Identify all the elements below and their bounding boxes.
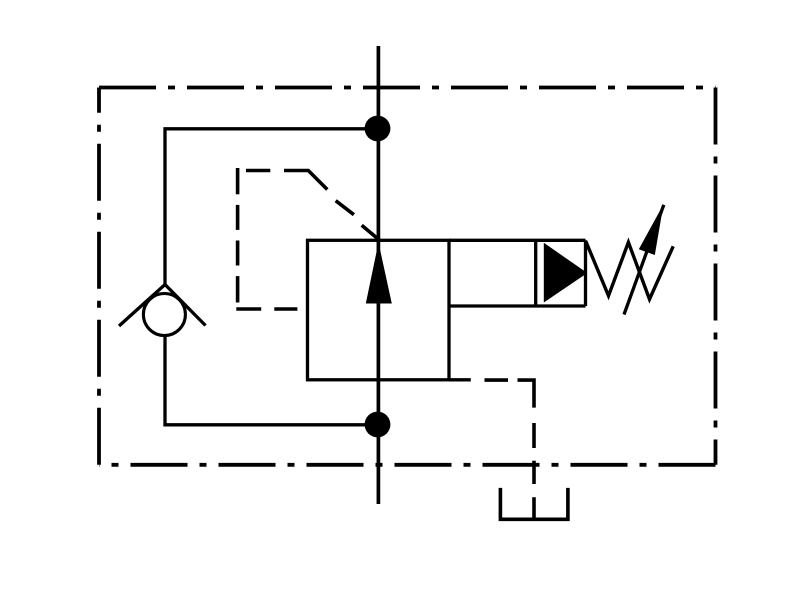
- pilot dashed vertical dash 3: [236, 241, 240, 266]
- enclosure boundary top: [99, 86, 716, 90]
- pilot box right edge: [584, 240, 587, 306]
- adjustment arrowhead: [639, 204, 664, 255]
- pilot dashed vertical dash 4: [236, 276, 240, 302]
- enclosure boundary right: [714, 88, 718, 465]
- enclosure boundary bottom: [99, 463, 716, 467]
- pilot dashed bottom dash 2: [274, 307, 297, 311]
- check valve ball: [143, 294, 185, 336]
- link box bottom: [449, 304, 586, 307]
- spring: [586, 241, 673, 299]
- pilot dashed vertical dash 1: [236, 168, 240, 194]
- pilot dashed top dash 1: [246, 169, 270, 173]
- enclosure boundary left: [97, 88, 101, 465]
- pilot dashed diagonal dash 2: [336, 201, 354, 215]
- pilot dashed vertical dash 2: [236, 205, 240, 230]
- adjustment arrow shaft: [624, 205, 664, 315]
- flow arrow: [366, 243, 392, 304]
- drain dashed dash 1: [485, 378, 509, 382]
- drain dashed dash 4: [532, 497, 536, 519]
- drain dashed dash 2: [532, 423, 536, 448]
- link box top: [449, 239, 586, 242]
- pilot stage triangle: [544, 243, 588, 303]
- drain wire solid stub: [449, 378, 471, 381]
- check valve seat: [119, 285, 206, 327]
- main vertical line: [377, 46, 381, 504]
- node bottom junction: [365, 412, 391, 438]
- drain dashed dash 3: [532, 461, 536, 484]
- pilot dashed diagonal dash 3: [362, 225, 379, 240]
- wire branch top: [165, 129, 377, 285]
- wire branch bottom: [165, 336, 377, 425]
- tank: [500, 488, 568, 519]
- pilot box divider: [534, 240, 537, 306]
- drain dashed corner dash: [518, 380, 535, 408]
- pilot dashed bottom dash 1: [236, 307, 261, 311]
- main valve body: [308, 240, 450, 379]
- pilot dashed top dash 2 with bend: [284, 171, 327, 190]
- node top junction: [365, 116, 391, 142]
